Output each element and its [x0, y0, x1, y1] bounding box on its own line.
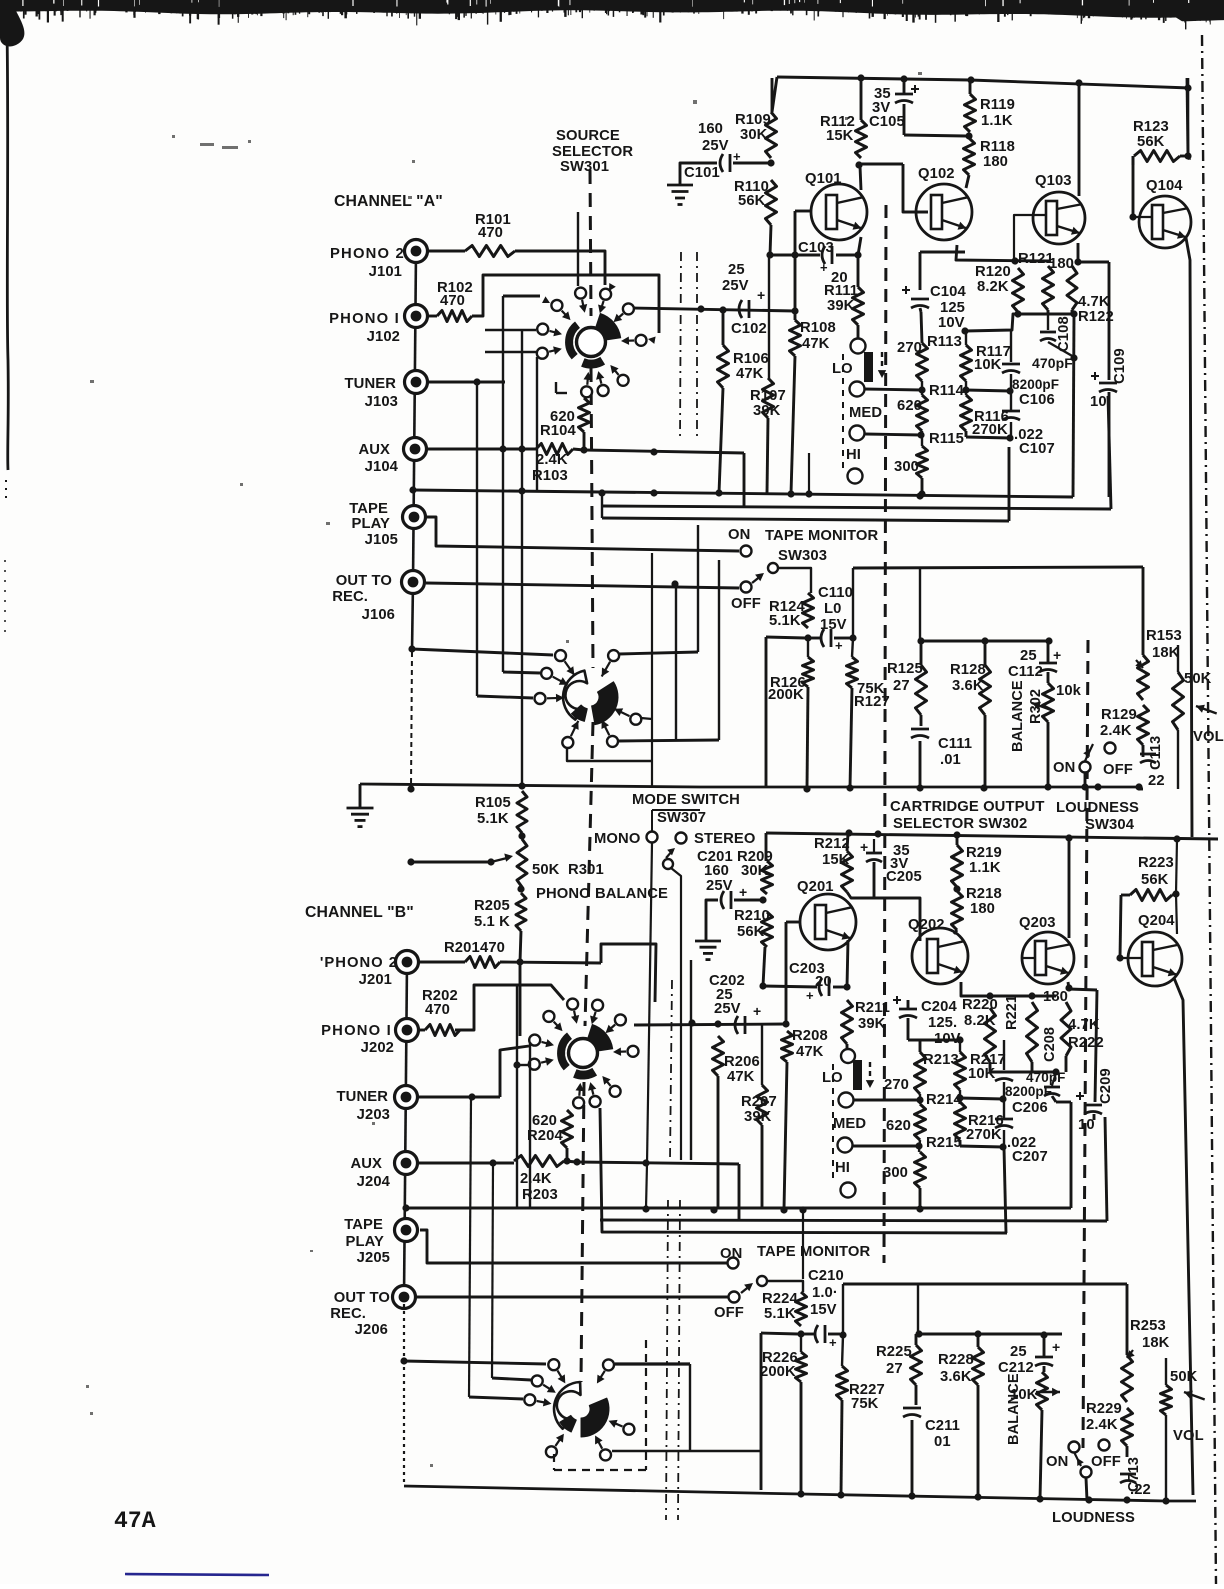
svg-text:Q104: Q104 [1146, 178, 1183, 194]
svg-text:47A: 47A [114, 1508, 156, 1534]
svg-text:39K: 39K [858, 1016, 886, 1032]
svg-text:R207: R207 [741, 1094, 777, 1110]
svg-text:R222: R222 [1068, 1035, 1104, 1051]
svg-text:R218: R218 [966, 886, 1002, 902]
svg-text:L0: L0 [824, 601, 841, 617]
svg-text:R204: R204 [527, 1128, 563, 1144]
svg-text:REC.: REC. [332, 589, 368, 605]
svg-text:ON: ON [1053, 760, 1075, 776]
svg-text:470: 470 [425, 1002, 450, 1018]
svg-text:C206: C206 [1012, 1100, 1048, 1116]
svg-text:OUT TO: OUT TO [334, 1290, 390, 1306]
svg-text:C111: C111 [938, 736, 972, 752]
svg-text:25: 25 [728, 262, 745, 278]
svg-text:39K: 39K [827, 298, 855, 314]
svg-text:270: 270 [884, 1077, 909, 1093]
svg-text:+: + [739, 884, 747, 900]
svg-text:R119: R119 [980, 97, 1015, 113]
svg-text:HI: HI [846, 447, 861, 463]
svg-text:C106: C106 [1019, 392, 1055, 408]
svg-text:J204: J204 [357, 1174, 391, 1190]
svg-text:TAPE: TAPE [349, 501, 388, 517]
svg-text:18K: 18K [1152, 645, 1180, 661]
svg-text:300: 300 [894, 459, 919, 475]
svg-text:C205: C205 [886, 869, 922, 885]
svg-text:8.2K: 8.2K [964, 1013, 996, 1029]
svg-text:SOURCE: SOURCE [556, 128, 620, 144]
svg-text:25: 25 [1010, 1344, 1027, 1360]
svg-text:50K: 50K [1184, 671, 1212, 687]
svg-text:180: 180 [970, 901, 995, 917]
svg-text:+: + [1053, 647, 1061, 663]
svg-text:10: 10 [1090, 394, 1107, 410]
svg-text:R120: R120 [975, 264, 1011, 280]
svg-text:R123: R123 [1133, 119, 1169, 135]
svg-text:R106: R106 [733, 351, 769, 367]
svg-text:10V: 10V [938, 315, 965, 331]
svg-text:10K: 10K [968, 1066, 996, 1082]
svg-text:+: + [806, 988, 814, 1003]
svg-text:R301: R301 [568, 862, 604, 878]
svg-text:5.1K: 5.1K [769, 613, 801, 629]
svg-text:OFF: OFF [731, 596, 761, 612]
svg-text:Q201: Q201 [797, 879, 834, 895]
svg-text:BALANCE: BALANCE [1006, 1373, 1022, 1445]
svg-text:VOL: VOL [1173, 1428, 1204, 1444]
svg-text:56K: 56K [738, 193, 766, 209]
svg-text:10K: 10K [1010, 1387, 1038, 1403]
svg-text:25V: 25V [722, 278, 749, 294]
svg-text:SELECTOR SW302: SELECTOR SW302 [893, 816, 1027, 832]
svg-text:PLAY: PLAY [345, 1234, 384, 1250]
svg-text:R118: R118 [980, 139, 1015, 155]
svg-text:J202: J202 [361, 1040, 394, 1056]
svg-text:15K: 15K [826, 128, 854, 144]
svg-text:J206: J206 [355, 1322, 388, 1338]
svg-text:R113: R113 [927, 334, 962, 350]
svg-text:TUNER: TUNER [345, 376, 397, 392]
svg-text:C104: C104 [930, 284, 966, 300]
svg-text:J201: J201 [359, 972, 392, 988]
svg-text:R208: R208 [792, 1028, 828, 1044]
svg-text:LOUDNESS: LOUDNESS [1056, 800, 1139, 816]
svg-text:R129: R129 [1101, 707, 1137, 723]
svg-text:MED: MED [833, 1116, 866, 1132]
svg-text:J203: J203 [357, 1107, 390, 1123]
svg-text:R228: R228 [938, 1352, 974, 1368]
svg-text:R125: R125 [887, 661, 923, 677]
svg-text:C207: C207 [1012, 1149, 1048, 1165]
svg-text:01: 01 [934, 1434, 951, 1450]
svg-text:J102: J102 [367, 329, 400, 345]
svg-text:+: + [860, 839, 868, 855]
svg-text:R127: R127 [854, 694, 890, 710]
svg-text:PHONO BALANCE: PHONO BALANCE [536, 886, 668, 902]
svg-text:10K: 10K [974, 357, 1002, 373]
svg-text:C101: C101 [684, 165, 720, 181]
svg-text:470: 470 [480, 940, 505, 956]
svg-text:1.1K: 1.1K [969, 860, 1001, 876]
svg-text:470: 470 [478, 225, 503, 241]
svg-text:R220: R220 [962, 997, 998, 1013]
svg-text:VOL: VOL [1193, 729, 1224, 745]
svg-text:C107: C107 [1019, 441, 1055, 457]
svg-text:47K: 47K [727, 1069, 755, 1085]
svg-text:R105: R105 [475, 795, 511, 811]
svg-text:160: 160 [704, 863, 729, 879]
svg-text:R114: R114 [929, 383, 965, 399]
svg-text:+: + [835, 638, 843, 653]
svg-text:OUT TO: OUT TO [336, 573, 392, 589]
svg-text:15V: 15V [810, 1302, 837, 1318]
svg-text:PLAY: PLAY [351, 516, 390, 532]
svg-text:75K: 75K [851, 1396, 879, 1412]
svg-text:270: 270 [897, 340, 922, 356]
svg-text:OFF: OFF [1103, 762, 1133, 778]
svg-text:J104: J104 [365, 459, 399, 475]
svg-text:J106: J106 [362, 607, 395, 623]
svg-text:47K: 47K [796, 1044, 824, 1060]
svg-text:CARTRIDGE OUTPUT: CARTRIDGE OUTPUT [890, 799, 1045, 815]
svg-text:4.7K: 4.7K [1078, 294, 1110, 310]
svg-text:25V: 25V [714, 1001, 741, 1017]
svg-text:56K: 56K [1137, 134, 1165, 150]
svg-text:56K: 56K [737, 924, 765, 940]
svg-text:620: 620 [886, 1118, 911, 1134]
svg-text:R205: R205 [474, 898, 510, 914]
svg-text:22: 22 [1148, 773, 1165, 789]
svg-text:BALANCE: BALANCE [1010, 680, 1026, 752]
svg-text:R206: R206 [724, 1054, 760, 1070]
svg-text:C103: C103 [798, 240, 834, 256]
svg-text:R108: R108 [800, 320, 836, 336]
svg-text:5.1K: 5.1K [764, 1306, 796, 1322]
svg-text:R223: R223 [1138, 855, 1174, 871]
svg-text:'PHONO 2: 'PHONO 2 [320, 955, 398, 971]
svg-text:AUX: AUX [350, 1156, 382, 1172]
svg-text:+: + [829, 1335, 837, 1350]
svg-text:2.4K: 2.4K [520, 1171, 552, 1187]
svg-text:PHONO I: PHONO I [329, 311, 400, 327]
svg-text:27: 27 [886, 1361, 903, 1377]
svg-text:PHONO I: PHONO I [321, 1023, 392, 1039]
svg-text:SW301: SW301 [560, 159, 609, 175]
svg-text:R115: R115 [929, 431, 964, 447]
svg-text:.22: .22 [1130, 1482, 1151, 1498]
svg-text:3.6K: 3.6K [952, 678, 984, 694]
svg-text:18K: 18K [1142, 1335, 1170, 1351]
svg-text:C208: C208 [1042, 1027, 1058, 1062]
svg-text:47K: 47K [736, 366, 764, 382]
svg-text:J105: J105 [365, 532, 398, 548]
svg-text:C209: C209 [1098, 1068, 1114, 1104]
svg-text:R212: R212 [814, 836, 850, 852]
svg-text:CHANNEL "B": CHANNEL "B" [305, 904, 414, 921]
svg-text:2.4K: 2.4K [1086, 1417, 1118, 1433]
svg-text:R225: R225 [876, 1344, 912, 1360]
svg-text:C211: C211 [925, 1418, 960, 1434]
svg-text:ON: ON [728, 527, 750, 543]
svg-text:+: + [1052, 1339, 1060, 1355]
svg-text:C102: C102 [731, 321, 767, 337]
svg-text:R211: R211 [855, 1000, 890, 1016]
svg-text:OFF: OFF [714, 1305, 744, 1321]
svg-text:TUNER: TUNER [337, 1089, 389, 1105]
svg-text:2.4K: 2.4K [1100, 723, 1132, 739]
svg-text:R214: R214 [926, 1092, 962, 1108]
svg-text:8.2K: 8.2K [977, 279, 1009, 295]
svg-text:56K: 56K [1141, 872, 1169, 888]
svg-text:C210: C210 [808, 1268, 844, 1284]
svg-text:270K: 270K [966, 1127, 1002, 1143]
svg-text:STEREO: STEREO [694, 831, 755, 847]
svg-text:SW303: SW303 [778, 548, 827, 564]
svg-text:ON: ON [1046, 1454, 1068, 1470]
svg-text:C113: C113 [1148, 736, 1164, 770]
svg-text:3.6K: 3.6K [940, 1369, 972, 1385]
svg-text:LOUDNESS: LOUDNESS [1052, 1510, 1135, 1526]
svg-text:R210: R210 [734, 908, 770, 924]
svg-text:TAPE MONITOR: TAPE MONITOR [757, 1244, 870, 1260]
svg-text:8200pF: 8200pF [1012, 377, 1059, 392]
svg-text:C109: C109 [1112, 348, 1128, 384]
svg-text:REC.: REC. [330, 1306, 366, 1322]
svg-text:39K: 39K [753, 403, 781, 419]
svg-text:Q103: Q103 [1035, 173, 1072, 189]
svg-text:620: 620 [532, 1113, 557, 1129]
svg-text:J101: J101 [369, 264, 402, 280]
svg-text:180: 180 [983, 154, 1008, 170]
svg-text:+: + [757, 287, 765, 303]
svg-text:30K: 30K [740, 127, 768, 143]
svg-text:10: 10 [1078, 1117, 1095, 1133]
svg-text:25: 25 [1020, 648, 1037, 664]
svg-text:5.1 K: 5.1 K [474, 914, 510, 930]
svg-text:SW307: SW307 [657, 810, 706, 826]
svg-text:50K: 50K [1170, 1369, 1198, 1385]
svg-text:R224: R224 [762, 1291, 798, 1307]
svg-text:270K: 270K [972, 422, 1008, 438]
svg-text:OFF: OFF [1091, 1454, 1121, 1470]
svg-text:R107: R107 [750, 388, 786, 404]
svg-text:27: 27 [893, 678, 910, 694]
svg-text:R201: R201 [444, 940, 480, 956]
svg-text:R128: R128 [950, 662, 986, 678]
svg-text:1.1K: 1.1K [981, 113, 1013, 129]
svg-text:200K: 200K [768, 687, 804, 703]
svg-text:C105: C105 [869, 114, 905, 130]
svg-text:MONO: MONO [594, 831, 640, 847]
svg-text:50K: 50K [532, 862, 560, 878]
svg-text:C204: C204 [921, 999, 957, 1015]
svg-text:200K: 200K [760, 1364, 796, 1380]
svg-text:TAPE: TAPE [344, 1217, 383, 1233]
svg-text:MODE SWITCH: MODE SWITCH [632, 792, 740, 808]
svg-text:SELECTOR: SELECTOR [552, 144, 633, 160]
svg-text:47K: 47K [802, 336, 830, 352]
svg-text:R213: R213 [923, 1052, 959, 1068]
svg-text:470pF: 470pF [1026, 1070, 1066, 1085]
svg-text:C110: C110 [818, 585, 853, 601]
svg-text:Q203: Q203 [1019, 915, 1056, 931]
svg-text:PHONO 2: PHONO 2 [330, 246, 405, 262]
svg-text:620: 620 [897, 398, 922, 414]
svg-text:160: 160 [698, 121, 723, 137]
svg-text:25V: 25V [702, 138, 729, 154]
svg-text:TAPE MONITOR: TAPE MONITOR [765, 528, 878, 544]
svg-text:R229: R229 [1086, 1401, 1122, 1417]
svg-text:R253: R253 [1130, 1318, 1166, 1334]
svg-text:180: 180 [1043, 989, 1068, 1005]
svg-text:470: 470 [440, 293, 465, 309]
svg-text:25V: 25V [706, 878, 733, 894]
svg-text:+: + [820, 260, 828, 275]
svg-text:180: 180 [1049, 256, 1074, 272]
svg-text:HI: HI [835, 1160, 850, 1176]
svg-text:C112: C112 [1008, 664, 1043, 680]
svg-text:R219: R219 [966, 845, 1002, 861]
svg-text:CHANNEL "A": CHANNEL "A" [334, 193, 443, 210]
svg-text:J103: J103 [365, 394, 398, 410]
svg-text:MED: MED [849, 405, 882, 421]
svg-text:J205: J205 [357, 1250, 390, 1266]
svg-text:R153: R153 [1146, 628, 1182, 644]
svg-text:+: + [753, 1003, 761, 1019]
svg-text:1.0·: 1.0· [812, 1285, 838, 1301]
svg-text:5.1K: 5.1K [477, 811, 509, 827]
svg-text:470pF: 470pF [1032, 355, 1073, 371]
svg-text:.01: .01 [940, 752, 961, 768]
svg-text:125: 125 [940, 300, 965, 316]
svg-text:R221: R221 [1004, 995, 1020, 1030]
svg-text:AUX: AUX [358, 442, 390, 458]
svg-text:Q102: Q102 [918, 166, 955, 182]
svg-text:R104: R104 [540, 423, 576, 439]
svg-text:R203: R203 [522, 1187, 558, 1203]
svg-text:2.4K: 2.4K [536, 452, 568, 468]
svg-text:125.: 125. [928, 1015, 957, 1031]
svg-text:Q204: Q204 [1138, 913, 1175, 929]
svg-text:39K: 39K [744, 1109, 772, 1125]
svg-text:10k: 10k [1056, 683, 1082, 699]
svg-text:300: 300 [883, 1165, 908, 1181]
svg-text:SW304: SW304 [1085, 817, 1135, 833]
